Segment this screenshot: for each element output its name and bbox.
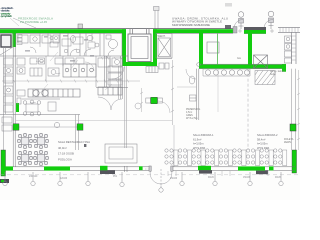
- door swing arc 2: [264, 20, 273, 29]
- door arcs kitchen: [85, 62, 122, 110]
- svg-text:mag.: mag.: [104, 56, 109, 58]
- left dining room label: [58, 140, 90, 161]
- left wall double line: [13, 33, 15, 167]
- svg-text:46,0m²: 46,0m²: [58, 146, 67, 150]
- misc small text marks kitchen: [30, 56, 109, 104]
- svg-text:h=3,05m: h=3,05m: [257, 142, 268, 146]
- svg-text:PO POZIOMIE +2.45: PO POZIOMIE +2.45: [20, 20, 47, 24]
- horizontal wall y115: [0, 114, 80, 116]
- top-left annotation text block: [0, 6, 14, 18]
- leader line from annotation: [13, 18, 36, 28]
- top wall green segment D: [244, 30, 266, 34]
- left green vertical bar: [1, 150, 6, 176]
- svg-text:h=3,05m: h=3,05m: [193, 142, 204, 146]
- top kitchen room fixtures row: [18, 35, 59, 43]
- svg-text:wyd.: wyd.: [56, 73, 61, 75]
- dark block below green4: [256, 171, 268, 175]
- green dot x140: [139, 166, 143, 170]
- wall y58 below vent room: [156, 57, 172, 59]
- circle symbol on dim line: [54, 122, 59, 127]
- chimney above wall: [154, 7, 160, 30]
- svg-text:ZEWN.: ZEWN.: [284, 141, 292, 144]
- vestibule right wall: [197, 69, 199, 120]
- partition green x199: [199, 33, 203, 68]
- masonry wall band top-right: [278, 27, 300, 32]
- dark block below green3: [199, 170, 212, 173]
- kitchen partitions verticals: [46, 33, 123, 99]
- vent room: [156, 34, 172, 59]
- svg-text:MUR SPRAWDZIC NA BUDOWIE: MUR SPRAWDZIC NA BUDOWIE: [172, 23, 210, 27]
- stairwell green wall bottom: [122, 62, 157, 66]
- circle symbol vestibule: [135, 103, 141, 109]
- bottom-left dark bar: [0, 179, 9, 183]
- small dark mark right of label: [84, 144, 86, 147]
- stairwell green wall right: [153, 29, 157, 62]
- stairwell green wall left: [122, 29, 126, 66]
- riser symbol 1: [238, 12, 244, 29]
- dark room box top-left: [1, 35, 11, 47]
- faint vertical x218 below: [217, 69, 219, 112]
- dimension slashes below WC wall: [101, 57, 122, 60]
- top wall green segment B: [153, 29, 233, 33]
- WC fixtures: [70, 35, 118, 56]
- staff table with chairs lower-left: [22, 99, 60, 116]
- svg-text:zmyw.: zmyw.: [30, 102, 36, 104]
- riser symbol 2: [268, 11, 274, 29]
- dark lintel strip above green segment D: [244, 27, 266, 30]
- svg-text:120/26: 120/26: [60, 178, 68, 180]
- door swing arc 1: [234, 20, 243, 29]
- kitchen island: [63, 64, 96, 77]
- svg-text:61,9m²: 61,9m²: [193, 137, 201, 141]
- shelf line y87: [177, 86, 197, 88]
- stairwell box: [128, 29, 151, 62]
- table cluster 2: [33, 133, 48, 148]
- tiny top marks x225: [225, 3, 232, 7]
- table cluster 1: [17, 133, 32, 148]
- svg-text:Gw: Gw: [237, 56, 241, 60]
- svg-text:150/26: 150/26: [170, 178, 178, 180]
- shelf boxes right of dish shelf: [159, 63, 169, 69]
- svg-text:- rynny blach: - rynny blach: [0, 14, 12, 18]
- partition green x248: [248, 33, 252, 66]
- tick marks below wall: [168, 171, 268, 176]
- small stacked boxes right of green bar: [17, 35, 22, 45]
- svg-text:SALA ZIMOWA 2: SALA ZIMOWA 2: [257, 133, 278, 137]
- bottom green segment 4: [238, 166, 265, 170]
- right edge dimension ticks: [297, 70, 300, 150]
- left fixtures column: [4, 58, 13, 112]
- vertical line x174 to dining: [173, 125, 175, 167]
- corridor door arc below stair: [112, 67, 124, 79]
- small box pair right: [190, 95, 197, 101]
- door cross mark x272: [270, 29, 274, 33]
- cooker strip on right wall: [285, 36, 292, 63]
- hinge ticks on wall: [125, 166, 128, 172]
- top main wall edge lines: [0, 28, 233, 30]
- shelving strip right kitchen: [108, 66, 122, 85]
- svg-text:kuchnia: kuchnia: [36, 61, 44, 63]
- green marker square 2: [77, 124, 83, 130]
- small box above wall x79: [78, 24, 83, 29]
- svg-text:90/26: 90/26: [208, 177, 214, 179]
- green door marker x151: [146, 97, 163, 104]
- table cluster 4: [33, 150, 48, 165]
- toilet at right wall: [189, 76, 195, 84]
- prep tables mid kitchen: [30, 68, 59, 76]
- right wall below stub: [292, 69, 296, 150]
- green door marker right wall: [290, 124, 296, 131]
- right masonry vertical wall: [292, 32, 297, 64]
- svg-text:SALA ZIMOWA 1: SALA ZIMOWA 1: [193, 133, 214, 137]
- top-center annotation text: [172, 17, 228, 27]
- corridor lines to entry: [119, 66, 127, 148]
- green wall left of dark box: [13, 33, 17, 47]
- fixtures row upper kitchen: [55, 58, 122, 67]
- dimension chain x141: [140, 88, 143, 112]
- leader lines kitchen: [40, 52, 112, 93]
- wall vertical x60: [59, 33, 61, 56]
- extra kitchen boxes row: [17, 58, 45, 104]
- bottom green block 2: [100, 166, 108, 171]
- top wall green segment A: [0, 29, 126, 33]
- svg-text:90/26: 90/26: [275, 177, 281, 179]
- counter strip 1: [28, 89, 80, 97]
- column markers row: [3, 172, 283, 192]
- small note text right: [284, 138, 294, 144]
- diagonal line top-left: [0, 47, 13, 55]
- svg-text:150/26: 150/26: [243, 177, 251, 179]
- green wall stub right: [282, 64, 286, 72]
- crossed shaft box right room: [254, 55, 268, 68]
- dimension line across kitchen: [2, 80, 140, 83]
- right dining seating rows: [165, 149, 287, 166]
- table cluster 3: [17, 150, 32, 165]
- tiny label marks kitchen top: [25, 35, 94, 62]
- small green block x269: [269, 166, 274, 170]
- vertical dimension line x172: [171, 60, 174, 125]
- vestibule text block: [186, 108, 201, 120]
- horizontal wall y56: [0, 55, 128, 57]
- bottom green segment 1: [44, 166, 70, 170]
- corner green horizontal: [1, 166, 13, 170]
- dashed vertical line x248: [247, 69, 249, 150]
- svg-text:P01: P01: [113, 176, 118, 178]
- dimension line y127 with green markers: [13, 126, 83, 128]
- wall y87 segment: [96, 87, 128, 89]
- storage boxes left wall below y115: [2, 117, 12, 131]
- sink row below lower green wall: [203, 69, 250, 76]
- tiny labels below wall: [29, 176, 281, 180]
- door cross mark x240: [238, 29, 242, 33]
- verticals x75-78 below: [76, 115, 79, 151]
- SALA ZIMOWA 1 text: [193, 133, 214, 150]
- kitchen upper-band extra fixtures: [30, 33, 99, 56]
- text block right of sinks: [270, 69, 286, 76]
- svg-text:58,4m²: 58,4m²: [257, 137, 265, 141]
- thin green glass line x217: [216, 34, 219, 65]
- bottom green block 3: [198, 166, 211, 170]
- svg-text:SALA RESTAURACYJNA: SALA RESTAURACYJNA: [58, 140, 90, 144]
- door arc at toilet: [186, 69, 196, 79]
- SALA ZIMOWA 2 text: [257, 133, 278, 150]
- svg-text:WYS.2,5m: WYS.2,5m: [186, 117, 197, 120]
- lower green wall right section: [199, 64, 286, 69]
- green segment on left wall: [16, 103, 19, 112]
- dark block below green2: [100, 170, 115, 174]
- entry mat rect: [105, 144, 137, 163]
- partition wall x105: [105, 56, 107, 87]
- door arc from green marker: [158, 101, 170, 113]
- entrance double door: [145, 166, 173, 185]
- green marker square 1: [13, 124, 19, 130]
- green label text PRZEKROJE: [18, 17, 53, 25]
- svg-text:WENT.: WENT.: [158, 34, 166, 38]
- green vertical bar right bottom: [292, 150, 297, 173]
- svg-text:17:18 OSOB: 17:18 OSOB: [58, 152, 74, 156]
- corner circle symbol: [197, 63, 201, 67]
- svg-text:230/120: 230/120: [29, 176, 38, 178]
- door post x233: [233, 27, 237, 34]
- dashed line below bottom wall: [0, 174, 300, 176]
- WC partitions: [68, 33, 122, 56]
- hatched ramp right room: [255, 71, 275, 85]
- counter strip 2: [98, 87, 122, 95]
- dish shelf below stair: [146, 67, 158, 73]
- left outer wall inner line: [4, 47, 6, 150]
- svg-text:PODLOGA: PODLOGA: [58, 157, 72, 161]
- table in buffet room: [207, 42, 219, 53]
